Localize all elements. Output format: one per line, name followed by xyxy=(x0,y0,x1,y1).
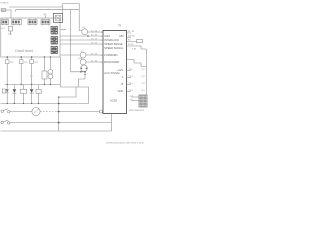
switch SW1 xyxy=(1,110,3,112)
ECU box A50 xyxy=(103,31,127,114)
wire P2 to ECU xyxy=(86,54,103,56)
svg-text:B: B xyxy=(122,82,124,86)
caption bottom right xyxy=(106,141,145,144)
wire connector feeds xyxy=(131,97,139,101)
connector circle P3 xyxy=(80,59,86,65)
arrow vertical x=58.7 xyxy=(58,97,60,132)
svg-text:SPEED SIGNAL: SPEED SIGNAL xyxy=(104,46,124,50)
label 6A tap xyxy=(44,13,47,16)
svg-text:x xxx x: x xxx x xyxy=(1,2,10,5)
connector circle P4 xyxy=(100,110,103,113)
wire P1 to ECU y=32 xyxy=(88,31,103,33)
ECU right pins group xyxy=(127,33,137,42)
wire y=97 stub xyxy=(59,87,76,97)
svg-text:Circuit board: Circuit board xyxy=(15,49,33,53)
wire branch 1 xyxy=(6,57,8,85)
bus node dots xyxy=(7,103,40,104)
svg-text:xx xx: xx xx xyxy=(91,41,98,44)
connector circle P1 xyxy=(82,29,88,35)
svg-text:+12V: +12V xyxy=(117,68,123,72)
svg-text:xxxx xxxxxxxx: xxxx xxxxxxxx xyxy=(129,109,145,112)
LED D2 xyxy=(12,89,16,93)
wire forward y=55 xyxy=(60,54,80,56)
wire board to ECU y=36 xyxy=(60,35,103,37)
svg-text:xxxxxxxxxxxxxxx xxxx xxxx x xx: xxxxxxxxxxxxxxx xxxx xxxx x xxxx xyxy=(106,141,145,144)
wire staircase top xyxy=(127,49,147,95)
connector circle P2 xyxy=(80,52,86,58)
wire motor bottom xyxy=(71,72,86,79)
connector J3 xyxy=(28,19,37,26)
lamp L3 xyxy=(30,60,34,64)
wire battery feed y=10 xyxy=(1,9,12,11)
wire branch 3 xyxy=(31,57,33,85)
wire bus y=131 xyxy=(1,130,112,132)
lamp L1 xyxy=(5,60,9,64)
wire top bus y=7 xyxy=(9,6,63,8)
resistor R2 right xyxy=(137,40,143,43)
svg-text:xx xx: xx xx xyxy=(91,29,98,32)
pin mark below ECU xyxy=(105,117,107,119)
svg-text:SPEED SENSE: SPEED SENSE xyxy=(104,42,123,46)
wire bus y=103.5 xyxy=(1,103,89,105)
wire dashed segment xyxy=(40,111,57,113)
wire board edge vertical xyxy=(59,57,61,87)
wire branch 5 xyxy=(49,57,51,85)
svg-text:xx xx: xx xx xyxy=(128,43,134,46)
svg-text:BACKWARD: BACKWARD xyxy=(104,60,119,64)
LED D3 xyxy=(30,89,34,93)
board pin stub y=29.5 xyxy=(60,29,66,31)
wire B y=9.7 xyxy=(16,10,80,12)
LED D1 xyxy=(2,89,8,93)
svg-text:xx xx: xx xx xyxy=(91,59,98,62)
resistor R1 xyxy=(20,89,27,93)
svg-text:xx xx: xx xx xyxy=(91,33,98,36)
svg-text:xxx xx: xxx xx xyxy=(128,35,135,38)
wire branch 2 xyxy=(20,57,22,85)
ECU right pins 2 xyxy=(127,71,132,92)
IC block K3 xyxy=(51,47,58,54)
svg-text:xx xx: xx xx xyxy=(91,52,98,55)
wire led drops xyxy=(7,85,38,104)
ECU left pin stubs xyxy=(101,32,103,64)
connector J1 xyxy=(2,19,9,26)
svg-text:xx xx: xx xx xyxy=(128,30,135,33)
svg-text:A53: A53 xyxy=(119,34,124,38)
wire y=122.6 xyxy=(10,122,112,124)
lamp L2 xyxy=(19,60,23,64)
stack connector CN1 xyxy=(139,95,147,107)
svg-text:6A: 6A xyxy=(44,13,47,16)
svg-text:A: A xyxy=(122,75,124,79)
node dots on board bottom xyxy=(44,56,45,57)
wire throttle y=111.5 xyxy=(10,111,32,113)
wire motor loop xyxy=(60,79,88,104)
node dot (88,36) xyxy=(87,35,89,37)
wire to ECU plug xyxy=(57,111,100,113)
svg-text:xx xx: xx xx xyxy=(91,37,98,40)
wire pin step xyxy=(127,46,147,49)
relay RY1 xyxy=(42,71,47,79)
svg-text:CON: CON xyxy=(104,34,110,38)
resistor R4 xyxy=(36,89,41,93)
switch SW2 xyxy=(1,121,3,123)
potentiometer VR1 xyxy=(32,107,40,115)
wire fuse F2 drop xyxy=(10,31,12,35)
relay RY0 box xyxy=(54,13,63,22)
wire board to ECU y=44 xyxy=(60,43,103,45)
wire rail y=84.5 xyxy=(5,84,61,86)
IC block K2 xyxy=(51,37,58,45)
fuse F2 on board xyxy=(9,26,13,31)
fuse F1 xyxy=(2,8,6,11)
motor M1 xyxy=(81,65,88,72)
wire B drop x=70.5 xyxy=(70,10,72,72)
wire board to ECU y=40 xyxy=(60,39,103,41)
wire branch 4 xyxy=(43,57,45,85)
wire drop to board xyxy=(10,10,12,18)
connector J2 xyxy=(12,19,22,26)
node dots rail xyxy=(7,84,8,85)
wire ECU bottom drop xyxy=(111,114,113,132)
wire top loop xyxy=(63,4,82,31)
title text top-left xyxy=(1,2,10,5)
connector J4 xyxy=(41,19,50,26)
svg-text:AC50: AC50 xyxy=(110,98,117,102)
circuit board U0 xyxy=(1,18,60,57)
pin labels wires xyxy=(91,29,98,62)
wire P3 to ECU xyxy=(86,61,103,63)
svg-text:INTERLOCK: INTERLOCK xyxy=(104,38,119,42)
IC block K1 xyxy=(51,27,58,35)
svg-text:FORWARD: FORWARD xyxy=(104,53,117,57)
svg-text:GND: GND xyxy=(118,89,124,93)
